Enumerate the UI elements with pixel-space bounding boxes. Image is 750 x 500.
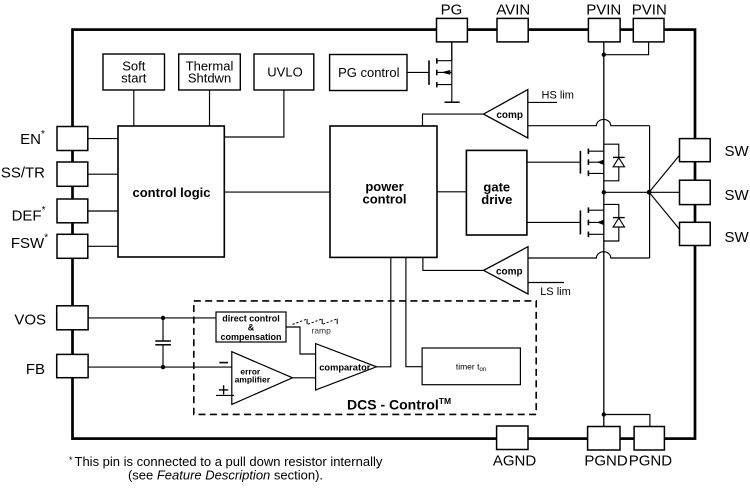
svg-text:DEF: DEF	[12, 207, 42, 224]
svg-text:comp: comp	[496, 266, 523, 277]
svg-text:PG control: PG control	[338, 65, 400, 80]
svg-text:FSW: FSW	[11, 235, 45, 252]
svg-text:UVLO: UVLO	[267, 64, 302, 79]
svg-text:*: *	[44, 233, 48, 244]
svg-text:PGND: PGND	[629, 452, 673, 469]
svg-text:(see Feature Description secti: (see Feature Description section).	[128, 468, 323, 483]
svg-text:DCS - ControlTM: DCS - ControlTM	[347, 396, 451, 413]
svg-text:AGND: AGND	[493, 452, 537, 469]
svg-text:SW: SW	[725, 229, 750, 246]
svg-text:drive: drive	[481, 192, 512, 207]
svg-text:VOS: VOS	[14, 312, 46, 329]
svg-text:control logic: control logic	[133, 185, 211, 200]
svg-text:compensation: compensation	[220, 332, 281, 342]
svg-text:EN: EN	[20, 131, 41, 148]
svg-text:*: *	[41, 129, 45, 140]
svg-text:Shtdwn: Shtdwn	[188, 70, 231, 85]
svg-text:PVIN: PVIN	[632, 2, 667, 19]
svg-text:AVIN: AVIN	[496, 2, 530, 19]
svg-text:comparator: comparator	[319, 363, 371, 373]
svg-text:PGND: PGND	[584, 452, 628, 469]
svg-text:amplifier: amplifier	[235, 375, 271, 385]
svg-text:FB: FB	[26, 361, 45, 378]
svg-text:HS lim: HS lim	[542, 89, 574, 101]
svg-text:SW: SW	[725, 143, 750, 160]
svg-text:control: control	[362, 192, 406, 207]
svg-text:SS/TR: SS/TR	[1, 164, 45, 181]
svg-text:start: start	[121, 70, 147, 85]
svg-text:PG: PG	[441, 2, 463, 19]
svg-text:SW: SW	[725, 187, 750, 204]
svg-text:*: *	[42, 205, 46, 216]
svg-text:PVIN: PVIN	[586, 2, 621, 19]
svg-text:ramp: ramp	[312, 325, 332, 335]
svg-text:comp: comp	[496, 110, 523, 121]
svg-text:LS lim: LS lim	[540, 286, 571, 298]
